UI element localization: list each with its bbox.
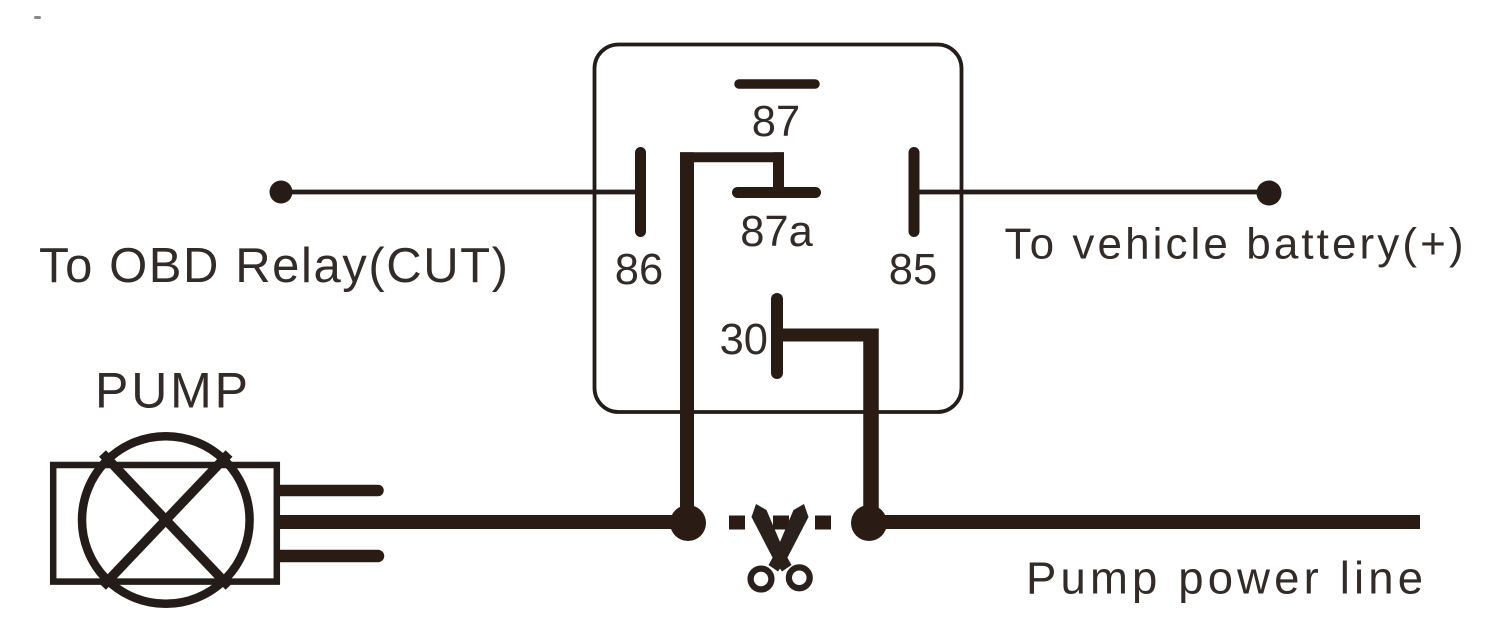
artifact smudge top-left — [34, 16, 41, 19]
pin 87 terminal bar — [739, 79, 815, 89]
pin 87a terminal bar — [738, 187, 816, 198]
node: junction dot right on power line — [851, 505, 887, 541]
pump M1 body rectangle — [53, 465, 277, 582]
wire: pump stub bottom — [281, 550, 378, 563]
pin 87 label — [752, 98, 800, 146]
svg-text:Pump power line: Pump power line — [1026, 553, 1423, 604]
svg-text:87: 87 — [752, 98, 800, 146]
relay U1 body outline — [595, 45, 962, 413]
svg-text:30: 30 — [720, 316, 768, 364]
svg-text:PUMP: PUMP — [95, 363, 248, 419]
wire: thick from pin 30 right then down to pump power line — [777, 329, 871, 523]
pin 30 label — [720, 316, 768, 364]
wire: pump power line left segment — [280, 515, 698, 529]
svg-text:To OBD Relay(CUT): To OBD Relay(CUT) — [39, 239, 508, 293]
pin 86 label — [615, 246, 663, 294]
wire: thin line pin 85 to right dot — [919, 190, 1269, 195]
label: To OBD Relay(CUT) — [39, 239, 508, 293]
wire: pump power line right segment — [856, 515, 1420, 529]
pump M1 circle — [82, 436, 250, 604]
wire: cut dash 1 — [729, 516, 745, 530]
wire: thick hook from pin 87a down to pump power line — [680, 152, 784, 522]
pump M1 cross X — [103, 454, 230, 587]
wire: cut dash 3 — [815, 516, 831, 530]
wire: cut dash 2 — [773, 516, 789, 530]
pin 85 label — [889, 246, 937, 294]
pin 87a label — [740, 208, 813, 256]
node: terminal dot left (to OBD relay) — [270, 181, 293, 204]
pin 85 terminal bar — [909, 153, 920, 232]
svg-text:85: 85 — [889, 246, 937, 294]
label: Pump power line — [1026, 553, 1423, 604]
wire: pump stub top — [281, 485, 378, 497]
label: PUMP — [95, 363, 248, 419]
svg-text:To vehicle battery(+): To vehicle battery(+) — [1005, 220, 1464, 269]
pin 30 terminal bar — [771, 299, 783, 373]
node: junction dot left on power line — [670, 505, 706, 541]
wire: thin line left dot to pin 86 — [281, 190, 636, 195]
pin 86 terminal bar — [635, 153, 646, 232]
label: To vehicle battery(+) — [1005, 220, 1464, 269]
node: terminal dot right (to vehicle battery) — [1257, 181, 1282, 206]
scissors (cut symbol) — [751, 504, 810, 589]
svg-text:87a: 87a — [740, 208, 813, 256]
svg-text:86: 86 — [615, 246, 663, 294]
